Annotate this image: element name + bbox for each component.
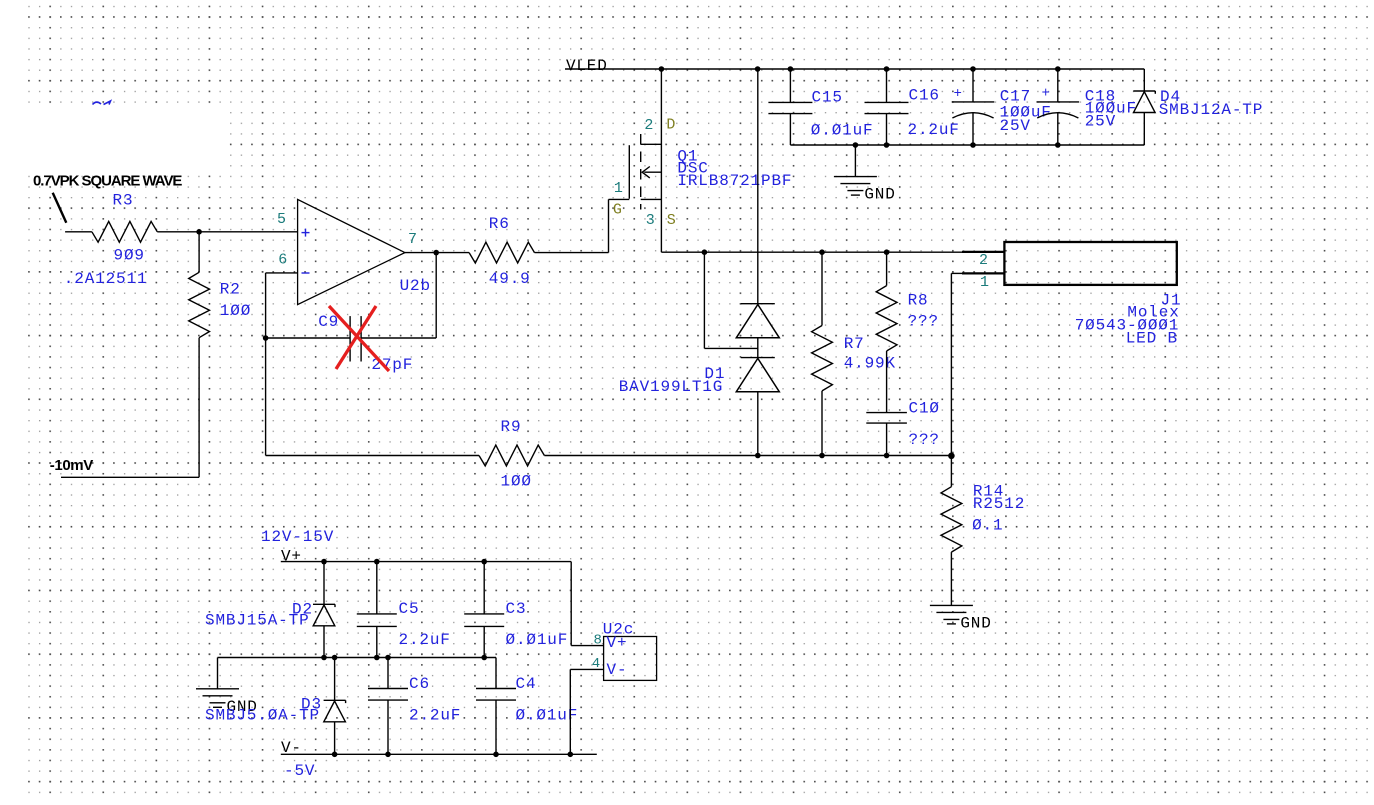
svg-text:8: 8 (594, 633, 602, 649)
svg-text:U2b: U2b (400, 277, 431, 295)
transistor Q1 symbol (609, 69, 662, 252)
op-amp U2b triangle with +/- inputs (298, 199, 405, 304)
pin 4 label (U2c V-) (592, 656, 600, 672)
pin 2 label (Q1 drain) (644, 117, 653, 134)
ground symbol (capacitor bank) (834, 177, 896, 204)
diode D3 TVS (324, 658, 346, 755)
capacitor C6 (368, 658, 408, 755)
wire output to C9 (435, 253, 437, 338)
node V+ net label (281, 548, 302, 566)
svg-text:2: 2 (644, 117, 653, 134)
junction V-/C6 (385, 752, 391, 758)
junction V+/D2 (321, 559, 327, 565)
label C15 value 0.01uF (811, 122, 874, 140)
junction source rail/D1 branch (702, 249, 708, 255)
label C4 refdes (516, 675, 537, 693)
capacitor C4 (476, 658, 516, 755)
svg-text:4.99K: 4.99K (844, 355, 896, 373)
label C15 refdes (812, 89, 843, 107)
pin name S (Q1) (667, 212, 676, 229)
svg-text:9Ø9: 9Ø9 (114, 246, 145, 264)
diode D2 TVS (313, 562, 335, 658)
label U2c refdes (603, 620, 634, 638)
wire R9 bottom rail (266, 455, 952, 457)
label R9 refdes (501, 418, 522, 436)
label C18 refdes (1085, 88, 1116, 106)
junction VLED/Q1 drain (659, 66, 665, 72)
wire -10mV stub (61, 476, 199, 478)
junction V-/C4 (493, 752, 499, 758)
label C5 value 2.2uF (399, 631, 451, 649)
label D2 refdes (292, 601, 313, 619)
junction gnd rail/D3 (332, 655, 338, 661)
svg-text:C15: C15 (812, 89, 843, 107)
svg-text:D: D (666, 116, 675, 133)
svg-text:R6: R6 (489, 215, 510, 233)
svg-text:SMBJ5.ØA-TP: SMBJ5.ØA-TP (205, 707, 320, 725)
svg-text:2: 2 (979, 252, 988, 269)
svg-text:R3: R3 (113, 192, 134, 210)
svg-text:Ø.Ø1uF: Ø.Ø1uF (506, 631, 569, 649)
svg-text:C3: C3 (506, 600, 527, 618)
pin 2 label (J1) (979, 252, 988, 269)
label C18 value 25V (1085, 112, 1116, 130)
label D2 part SMBJ15A-TP (205, 612, 310, 630)
label C6 refdes (409, 675, 430, 693)
label Q1 DSC (677, 160, 708, 178)
capacitor C16 (865, 69, 909, 145)
label R2 refdes (220, 281, 241, 299)
svg-text:???: ??? (909, 431, 940, 449)
diode D4 TVS (1133, 69, 1155, 145)
resistor R3 (92, 221, 157, 242)
label C18 value 100uF (1085, 100, 1137, 118)
capacitor C17 polarized (952, 69, 995, 145)
svg-text:-10mV: -10mV (50, 457, 93, 474)
pin 8 label (U2c V+) (594, 633, 602, 649)
resistor R2 (189, 232, 210, 477)
svg-text:7: 7 (408, 231, 417, 248)
label R7 refdes (844, 335, 865, 353)
label U2c V+ pin name (607, 634, 628, 652)
label C17 refdes (1000, 88, 1031, 106)
wire V- rail (281, 753, 597, 755)
junction V+/C5 (374, 559, 380, 565)
annotation -10mV (50, 457, 93, 474)
resistor R14 (941, 456, 962, 606)
junction gnd rail/C3 (481, 655, 487, 661)
pin 5 label (U2b +) (277, 211, 286, 228)
svg-text:+: + (954, 86, 962, 102)
svg-text:C5: C5 (399, 600, 420, 618)
svg-text:12V-15V: 12V-15V (261, 528, 334, 546)
junction bottom rail/R14/J1 (948, 453, 955, 460)
svg-text:.2A12511: .2A12511 (64, 270, 148, 288)
label J1 LED B (1126, 329, 1178, 347)
svg-text:G: G (613, 201, 622, 218)
svg-text:GND: GND (960, 614, 991, 632)
svg-text:VLED: VLED (566, 57, 608, 75)
label C18 plus sign (1042, 86, 1050, 102)
ground symbol (supply) (196, 689, 258, 716)
wire supply ground rail (218, 658, 497, 689)
junction bottom rail/D1 (755, 453, 761, 459)
svg-text:R2512: R2512 (973, 495, 1025, 513)
svg-text:GND: GND (864, 186, 895, 204)
red X deletion mark over C9 (329, 306, 389, 371)
svg-text:R9: R9 (501, 418, 522, 436)
node 12V-15V label (261, 528, 334, 546)
svg-text:C6: C6 (409, 675, 430, 693)
junction gnd rail/D2 (321, 655, 327, 661)
label R8 value ??? (908, 313, 939, 331)
label J1 Molex (1127, 304, 1179, 322)
node -5V label (284, 762, 315, 780)
capacitor C9 (crossed out) (266, 316, 437, 361)
label C4 value 0.01uF (516, 707, 579, 725)
label C17 value 25V (1000, 117, 1031, 135)
junction source rail/R8 (884, 249, 890, 255)
junction bottom rail/R7 (819, 453, 825, 459)
label Q1 part IRLB8721PBF (677, 172, 792, 190)
label Q1 refdes (677, 148, 698, 166)
label R8 refdes (908, 292, 929, 310)
label J1 part 70543-0001 (1075, 316, 1180, 334)
junction input/R2 (196, 229, 202, 235)
label D1 refdes (704, 365, 725, 383)
wire J1 pin 1 sense line (951, 273, 1004, 455)
junction VLED/C16 (884, 66, 890, 72)
svg-text:V+: V+ (281, 548, 302, 566)
label D1 part BAV199LT1G (619, 378, 724, 396)
svg-text:V+: V+ (607, 634, 628, 652)
label R3 part .2A12511 (64, 270, 148, 288)
label R6 refdes (489, 215, 510, 233)
label R6 value 49.9 (489, 270, 531, 288)
junction bottom rail/C17 (970, 142, 976, 148)
resistor R7 (812, 252, 833, 455)
capacitor C18 polarized (1037, 69, 1080, 145)
label C3 value 0.01uF (506, 631, 569, 649)
connector J1 body (1004, 242, 1176, 285)
label C17 value 100uF (1000, 104, 1052, 122)
junction V-/D3 (332, 752, 338, 758)
wire VLED rail (565, 68, 1144, 70)
wire input left segment (65, 231, 92, 233)
svg-text:SMBJ12A-TP: SMBJ12A-TP (1159, 101, 1264, 119)
wire U2b output (405, 252, 469, 254)
svg-text:49.9: 49.9 (489, 270, 531, 288)
svg-text:25V: 25V (1000, 117, 1031, 135)
label D4 part SMBJ12A-TP (1159, 101, 1264, 119)
label C10 refdes (909, 400, 940, 418)
resistor R6 (469, 242, 534, 263)
capacitor C3 (464, 562, 504, 658)
svg-text:Ø.Ø1uF: Ø.Ø1uF (811, 122, 874, 140)
label D3 part SMBJ5.0A-TP (205, 707, 320, 725)
capacitor C10 (866, 413, 907, 456)
ground symbol (R14) (930, 605, 992, 632)
svg-text:1: 1 (614, 180, 623, 197)
label R14 part R2512 (973, 495, 1025, 513)
label C16 value 2.2uF (908, 121, 960, 139)
stray blue mark (93, 101, 111, 105)
annotation 0.7VPK SQUARE WAVE (33, 173, 182, 190)
pin 6 label (U2b -) (278, 252, 287, 269)
label U2c V- pin name (607, 661, 628, 679)
label D4 refdes (1160, 88, 1181, 106)
pin name G (Q1) (613, 201, 622, 218)
svg-text:IRLB8721PBF: IRLB8721PBF (677, 172, 792, 190)
pin 1 label (J1) (980, 274, 989, 291)
wire input to op-amp (157, 231, 297, 233)
svg-text:-5V: -5V (284, 762, 315, 780)
junction VLED/D1 (755, 66, 761, 72)
wire R6 to Q1 gate (535, 199, 609, 252)
pin 1 label (Q1 gate) (614, 180, 623, 197)
pin 7 label (U2b out) (408, 231, 417, 248)
junction V-/U2c pin 4 (568, 752, 574, 758)
label D3 refdes (301, 696, 322, 714)
svg-text:SMBJ15A-TP: SMBJ15A-TP (205, 612, 310, 630)
svg-text:S: S (667, 212, 676, 229)
junction gnd rail/C5 (374, 655, 380, 661)
wire Q1 source rail to J1 pin 2 (661, 251, 1004, 253)
label R2 value 100 (220, 302, 251, 320)
node VLED net label (566, 57, 608, 75)
svg-text:???: ??? (908, 313, 939, 331)
wire U2c pin 4 to V- rail (570, 669, 603, 754)
label R9 value 100 (501, 473, 532, 491)
junction feedback/C9 (263, 335, 269, 341)
wire D1 center-tap branch (704, 252, 757, 348)
label C6 value 2.2uF (409, 707, 461, 725)
junction output/C9 branch (433, 250, 439, 256)
svg-text:R8: R8 (908, 292, 929, 310)
svg-text:0.7VPK SQUARE WAVE: 0.7VPK SQUARE WAVE (33, 173, 182, 190)
op-amp power pins U2c (604, 637, 657, 681)
wire GND tap (854, 145, 856, 177)
junction bottom rail/C18 (1055, 142, 1061, 148)
junction bottom rail/GND tap (853, 142, 859, 148)
svg-text:2.2uF: 2.2uF (409, 707, 461, 725)
svg-text:1ØØ: 1ØØ (501, 473, 532, 491)
label R7 value 4.99K (844, 355, 896, 373)
junction V+/C3 (481, 559, 487, 565)
svg-text:2.2uF: 2.2uF (399, 631, 451, 649)
svg-text:1: 1 (980, 274, 989, 291)
svg-text:V-: V- (607, 661, 628, 679)
label C17 plus sign (954, 86, 962, 102)
junction VLED/C15 (788, 66, 794, 72)
svg-text:R2: R2 (220, 281, 241, 299)
svg-text:1ØØ: 1ØØ (220, 302, 251, 320)
svg-text:Ø.1: Ø.1 (972, 516, 1003, 534)
annotation leader line (53, 193, 67, 223)
svg-text:R7: R7 (844, 335, 865, 353)
pin name D (Q1) (666, 116, 675, 133)
svg-text:C4: C4 (516, 675, 537, 693)
svg-text:C16: C16 (909, 87, 940, 105)
label C9 refdes (318, 313, 339, 331)
svg-text:BAV199LT1G: BAV199LT1G (619, 378, 724, 396)
junction gnd rail/C6 (385, 655, 391, 661)
diode D1 dual diode symbol (736, 69, 779, 456)
svg-text:6: 6 (278, 252, 287, 269)
capacitor C15 (768, 69, 812, 145)
label R14 value 0.1 (972, 516, 1003, 534)
junction source rail/R7 (819, 249, 825, 255)
svg-text:+: + (1042, 86, 1050, 102)
resistor R9 (479, 445, 544, 466)
svg-text:Ø.Ø1uF: Ø.Ø1uF (516, 707, 579, 725)
label J1 refdes (1161, 291, 1182, 309)
svg-text:3: 3 (646, 212, 655, 229)
junction bottom rail/C16 (884, 142, 890, 148)
svg-text:25V: 25V (1085, 112, 1116, 130)
label C10 value ??? (909, 431, 940, 449)
pin 3 label (Q1 source) (646, 212, 655, 229)
label C16 refdes (909, 87, 940, 105)
label C5 refdes (399, 600, 420, 618)
label R3 refdes (113, 192, 134, 210)
junction bottom rail/C10 (884, 453, 890, 459)
svg-text:5: 5 (277, 211, 286, 228)
node V- net label (281, 739, 302, 757)
wire V+ rail (281, 562, 604, 646)
svg-text:2.2uF: 2.2uF (908, 121, 960, 139)
label R14 refdes (973, 483, 1004, 501)
resistor R8 (876, 252, 897, 412)
svg-text:LED B: LED B (1126, 329, 1178, 347)
label R3 value 909 (114, 246, 145, 264)
junction VLED/C17 (970, 66, 976, 72)
svg-text:C1Ø: C1Ø (909, 400, 940, 418)
label C9 value 27pF (371, 356, 413, 374)
wire capacitor bank bottom rail (790, 144, 1144, 146)
capacitor C5 (357, 562, 397, 658)
label C3 refdes (506, 600, 527, 618)
wire U2b inverting input feedback (266, 273, 298, 456)
label U2b refdes (400, 277, 431, 295)
junction VLED/C18 (1055, 66, 1061, 72)
